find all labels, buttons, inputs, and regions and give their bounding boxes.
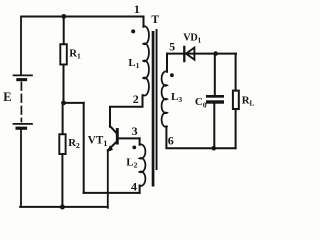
svg-text:L2: L2 bbox=[126, 157, 137, 170]
svg-text:5: 5 bbox=[169, 39, 175, 53]
svg-text:T: T bbox=[151, 14, 159, 26]
svg-text:R1: R1 bbox=[69, 47, 81, 60]
wire C0 bottom lead bbox=[213, 104, 215, 149]
polarity dot L1 bbox=[131, 29, 135, 33]
node R1 top bbox=[61, 14, 66, 19]
svg-text:C0: C0 bbox=[195, 96, 207, 109]
wire R2 top lead bbox=[62, 103, 64, 134]
wire pin4 horizontal bbox=[84, 192, 140, 194]
wire battery to bottom bbox=[20, 130, 22, 207]
wire dashed between cells bbox=[20, 83, 22, 122]
polarity dot L2 bbox=[132, 146, 136, 150]
svg-text:2: 2 bbox=[133, 92, 139, 106]
wire bottom bus bbox=[20, 206, 108, 208]
wire output top bbox=[167, 53, 236, 55]
wire C0 top lead bbox=[214, 54, 216, 95]
wire output bottom bbox=[166, 147, 235, 149]
polarity dot L3 bbox=[170, 73, 174, 77]
capacitor C0 bbox=[206, 95, 224, 104]
wire pin6 lead bbox=[165, 127, 167, 148]
node A (R1/R2/bias) bbox=[61, 101, 66, 106]
inductor L1 winding bbox=[143, 17, 145, 27]
svg-text:6: 6 bbox=[168, 134, 174, 148]
wire RL bottom lead bbox=[235, 109, 237, 148]
wire bias vertical bbox=[83, 103, 85, 193]
svg-text:L1: L1 bbox=[128, 57, 139, 70]
resistor RL bbox=[233, 91, 239, 109]
wire R1 bottom lead bbox=[63, 65, 65, 104]
wire RL top lead bbox=[235, 54, 237, 91]
node R2 bottom bbox=[60, 205, 65, 210]
diode VD1 bbox=[184, 47, 194, 61]
transistor VT1 bbox=[107, 126, 140, 208]
battery E cell 2 bbox=[14, 124, 33, 130]
svg-text:RL: RL bbox=[242, 94, 255, 107]
resistor R2 bbox=[59, 134, 65, 154]
wire left vertical to battery bbox=[20, 17, 22, 75]
svg-text:VT1: VT1 bbox=[88, 135, 108, 148]
battery E cell 1 bbox=[14, 75, 33, 81]
resistor R1 bbox=[60, 44, 67, 64]
svg-text:VD1: VD1 bbox=[183, 32, 201, 44]
wire node A to bias column bbox=[64, 102, 84, 104]
svg-text:L3: L3 bbox=[171, 91, 182, 104]
wire pin2 path bbox=[110, 95, 143, 126]
inductor L3 winding bbox=[166, 54, 168, 72]
node C0 bottom bbox=[212, 146, 217, 151]
svg-text:3: 3 bbox=[132, 124, 138, 138]
svg-text:E: E bbox=[3, 90, 11, 104]
svg-text:R2: R2 bbox=[68, 137, 80, 150]
wire top bus bbox=[22, 16, 144, 18]
wire R1 top lead bbox=[63, 17, 65, 45]
transformer core bbox=[152, 29, 158, 187]
node diode/C0 top bbox=[213, 51, 218, 56]
junction node dots bbox=[60, 14, 218, 210]
svg-text:1: 1 bbox=[134, 2, 140, 16]
inductor L2 winding bbox=[139, 138, 141, 193]
wire R2 bottom lead bbox=[61, 154, 63, 207]
svg-text:4: 4 bbox=[131, 179, 137, 193]
